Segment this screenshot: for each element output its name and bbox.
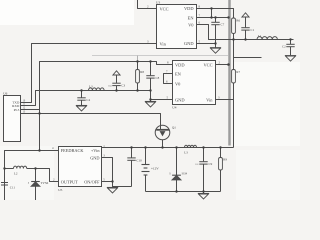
power flag + capacitor C1 bbox=[241, 13, 249, 40]
wire C8 column bbox=[150, 62, 152, 76]
svg-text:U5: U5 bbox=[58, 188, 62, 192]
wire R7 column bbox=[233, 40, 235, 70]
inductor L3 bbox=[89, 88, 105, 91]
svg-text:OUTPUT: OUTPUT bbox=[61, 179, 78, 184]
ground (U4 GND) bbox=[150, 100, 152, 102]
wire VDD-EN tie bbox=[211, 9, 213, 18]
connector U6 bbox=[3, 91, 26, 141]
svg-text:+12V: +12V bbox=[151, 166, 159, 170]
wire U4 EN V0 bracket bbox=[164, 74, 173, 84]
svg-text:C11: C11 bbox=[10, 186, 16, 190]
svg-text:PL3: PL3 bbox=[14, 108, 20, 112]
wire C10 bottom tie bbox=[113, 186, 132, 188]
wire R6 bottom bbox=[233, 34, 235, 40]
inductor L1 bbox=[257, 37, 277, 40]
svg-text:R7: R7 bbox=[236, 70, 240, 74]
svg-text:GND: GND bbox=[175, 97, 185, 102]
op-amp U4 (middle regulator IC) bbox=[166, 60, 221, 109]
wire U3 VDD net bbox=[197, 9, 234, 19]
wire U4 Vin stub bbox=[216, 99, 234, 101]
svg-text:R6: R6 bbox=[236, 18, 240, 22]
ground (C4) bbox=[76, 105, 87, 111]
svg-text:Q1: Q1 bbox=[172, 126, 176, 130]
wire TXD to U3 Vin bbox=[21, 44, 157, 103]
op-amp U3 (top regulator IC) bbox=[147, 1, 201, 49]
svg-text:C7: C7 bbox=[221, 23, 225, 27]
svg-text:VDD: VDD bbox=[175, 62, 185, 67]
svg-text:V0: V0 bbox=[175, 81, 181, 86]
svg-text:U4: U4 bbox=[172, 106, 176, 110]
wire U5 ON/OFF stub bbox=[102, 181, 113, 183]
capacitor C8 bbox=[146, 76, 154, 78]
inductor L2 bbox=[14, 166, 27, 168]
transistor Q1 bbox=[155, 125, 170, 147]
wire U3 EN net bbox=[197, 17, 229, 19]
svg-text:VCC: VCC bbox=[160, 6, 169, 11]
svg-text:FEEDBACK: FEEDBACK bbox=[61, 148, 85, 153]
svg-text:GND: GND bbox=[90, 155, 99, 160]
svg-text:+Vin: +Vin bbox=[91, 148, 100, 153]
svg-text:L3: L3 bbox=[184, 150, 188, 154]
faint section line bbox=[92, 55, 228, 57]
resistor R7 bbox=[232, 70, 236, 84]
wire U4 VCC stub bbox=[216, 64, 229, 66]
svg-text:L3: L3 bbox=[89, 85, 93, 89]
capacitor C2 bbox=[286, 40, 294, 56]
svg-text:C10: C10 bbox=[136, 158, 142, 162]
svg-text:C1: C1 bbox=[251, 28, 255, 32]
wire U3 V0 jog to L1 rail bbox=[197, 25, 294, 40]
svg-text:V0: V0 bbox=[188, 22, 194, 27]
svg-text:GND: GND bbox=[184, 41, 194, 46]
svg-text:R8: R8 bbox=[140, 70, 144, 74]
wire VCC feed top bbox=[138, 0, 157, 9]
wire bottom ground bus bbox=[146, 191, 221, 193]
svg-text:EN: EN bbox=[188, 15, 195, 20]
capacitor C10 bbox=[127, 148, 135, 187]
svg-text:R9: R9 bbox=[223, 158, 227, 162]
diode TVS6 bbox=[31, 169, 40, 201]
svg-text:ON/OFF: ON/OFF bbox=[84, 179, 100, 184]
diode D1 (Schottky) bbox=[172, 148, 181, 192]
wire U5 GND column bbox=[102, 158, 113, 188]
power flag + capacitor C3 bbox=[112, 71, 120, 91]
ground (C2) bbox=[285, 56, 296, 62]
wire R8 column bbox=[137, 62, 139, 70]
wire L2 branch to OUTPUT bbox=[5, 168, 14, 170]
ground (bottom bus) bbox=[203, 192, 205, 194]
svg-text:Vin: Vin bbox=[206, 97, 213, 102]
capacitor C9 bbox=[199, 148, 207, 192]
svg-text:C9: C9 bbox=[209, 162, 213, 166]
wire net4 row to Q1 gate bbox=[21, 114, 161, 130]
svg-text:U3: U3 bbox=[156, 1, 160, 5]
wire U3 GND stub bbox=[197, 43, 216, 45]
svg-text:EN: EN bbox=[175, 71, 182, 76]
wire riser to U4 VDD bbox=[40, 62, 173, 151]
svg-text:L1: L1 bbox=[258, 34, 262, 38]
svg-text:C8: C8 bbox=[156, 76, 160, 80]
capacitor C7 bbox=[211, 18, 219, 44]
resistor R6 bbox=[232, 18, 236, 34]
resistor R8 bbox=[137, 56, 139, 62]
wire U4 GND stub bbox=[151, 99, 173, 101]
svg-text:Vin: Vin bbox=[160, 41, 167, 46]
svg-text:TVS6: TVS6 bbox=[41, 181, 49, 185]
svg-text:VCC: VCC bbox=[203, 62, 212, 67]
inductor L5 bbox=[185, 145, 197, 147]
wire RXD to left bus bbox=[21, 91, 151, 106]
capacitor C11 bbox=[1, 183, 8, 186]
wire U5 output rail bbox=[102, 147, 234, 149]
svg-text:C4: C4 bbox=[86, 98, 90, 102]
svg-text:U6: U6 bbox=[3, 91, 7, 95]
battery +12V bbox=[142, 148, 150, 192]
svg-text:VDD: VDD bbox=[184, 6, 194, 11]
capacitor C4 bbox=[77, 91, 85, 106]
svg-text:C3: C3 bbox=[121, 83, 125, 87]
wire PL3 stub bbox=[21, 109, 40, 111]
svg-text:C2: C2 bbox=[282, 45, 286, 49]
resistor R9 bbox=[219, 148, 223, 192]
grey bus line bbox=[228, 0, 231, 146]
svg-text:L2: L2 bbox=[14, 172, 18, 176]
wire dead-end stub bbox=[234, 57, 262, 59]
ground (U5) bbox=[107, 187, 118, 193]
wire FEEDBACK net bbox=[5, 151, 59, 201]
op-amp U5 (buck converter IC) bbox=[52, 144, 105, 192]
ground (U3 GND) bbox=[215, 44, 217, 48]
svg-text:SS34: SS34 bbox=[182, 172, 188, 175]
